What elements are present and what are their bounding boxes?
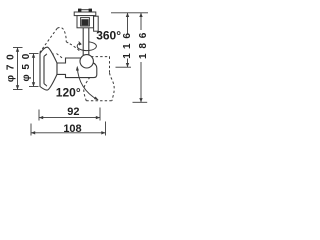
svg-text:φ70: φ70 (5, 49, 16, 82)
svg-text:120°: 120° (56, 85, 81, 99)
svg-text:360°: 360° (96, 28, 121, 42)
svg-text:φ50: φ50 (21, 49, 32, 82)
svg-text:116: 116 (122, 28, 133, 59)
svg-text:108: 108 (63, 123, 81, 135)
svg-text:186: 186 (138, 28, 149, 59)
svg-text:92: 92 (67, 106, 79, 118)
